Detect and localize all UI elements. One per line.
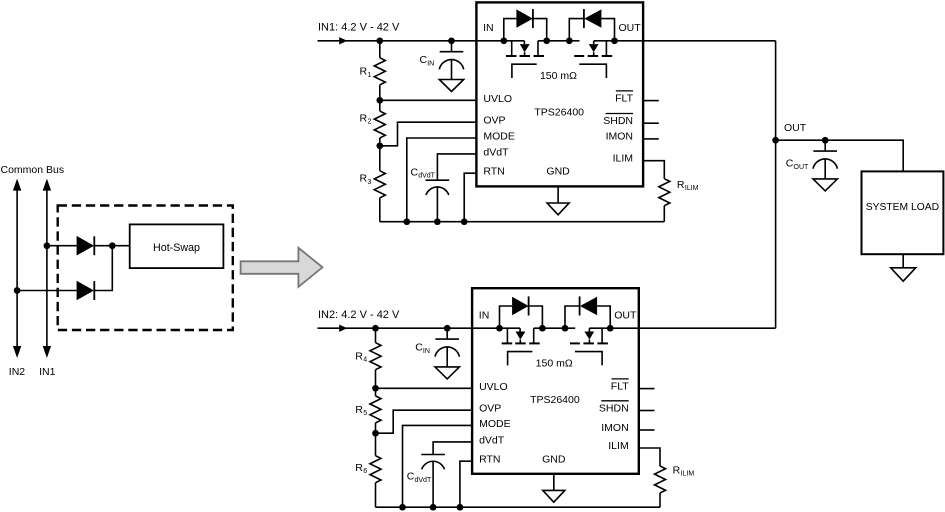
diode D1 xyxy=(77,236,95,256)
svg-text:150 mΩ: 150 mΩ xyxy=(536,357,573,369)
label ILIM pin xyxy=(613,153,633,165)
node on bus IN1 xyxy=(44,242,51,249)
svg-text:R: R xyxy=(673,465,681,477)
node R5/R6/OVP xyxy=(372,430,379,437)
node R1/R2/UVLO xyxy=(376,97,383,104)
label IN1: 4.2 V - 42 V xyxy=(318,22,400,34)
label TPS26400 (U2) xyxy=(530,394,580,406)
wire ILIM xyxy=(643,161,664,179)
body diode D1b xyxy=(569,9,614,41)
label C_IN (IN1 side) xyxy=(420,54,435,67)
svg-text:1: 1 xyxy=(368,72,372,79)
wire OUT from U2 xyxy=(639,327,776,329)
IC U2 TPS26400 body xyxy=(472,288,639,474)
svg-text:ILIM: ILIM xyxy=(685,185,699,192)
svg-text:6: 6 xyxy=(363,468,367,475)
svg-text:GND: GND xyxy=(542,453,566,465)
svg-text:ILIM: ILIM xyxy=(613,153,633,165)
mosfet Q1a xyxy=(506,41,544,78)
label OUT pin xyxy=(614,309,637,321)
label RTN pin xyxy=(479,454,500,466)
svg-text:MODE: MODE xyxy=(479,418,511,430)
label SHDN pin (active low) xyxy=(603,114,633,128)
label IMON pin xyxy=(606,131,633,143)
svg-text:MODE: MODE xyxy=(483,131,515,143)
svg-text:IN1: 4.2 V - 42 V: IN1: 4.2 V - 42 V xyxy=(318,22,400,34)
label TPS26400 (U1) xyxy=(534,107,584,119)
label UVLO pin xyxy=(483,93,512,105)
svg-text:R: R xyxy=(360,113,368,125)
svg-text:UVLO: UVLO xyxy=(483,93,512,105)
label dVdT pin xyxy=(479,434,505,446)
label MODE pin xyxy=(479,418,511,430)
input arrowhead IN2 xyxy=(339,325,347,332)
wire bus IN2 to diode D2 xyxy=(17,290,77,292)
node Q1a drain xyxy=(500,37,507,44)
diode D2 xyxy=(77,281,95,301)
resistor R5 xyxy=(370,388,381,433)
svg-text:4: 4 xyxy=(363,357,367,364)
node Q1b source xyxy=(566,37,573,44)
node MODE/rail xyxy=(403,218,410,225)
node RTN/rail xyxy=(457,504,464,511)
node C_dVdT/rail xyxy=(434,218,441,225)
wire ground rail xyxy=(380,221,665,223)
svg-text:OUT: OUT xyxy=(614,309,637,321)
svg-text:Common Bus: Common Bus xyxy=(1,164,65,176)
wire OVP xyxy=(376,410,473,433)
svg-text:IN1: IN1 xyxy=(39,366,56,378)
label R5 xyxy=(355,404,367,417)
svg-text:RTN: RTN xyxy=(479,454,500,466)
label IN pin xyxy=(483,22,494,34)
pin stub SHDN xyxy=(643,122,659,124)
pin stub IMON xyxy=(639,429,655,431)
body diode D2b xyxy=(565,296,610,328)
svg-text:dVdT: dVdT xyxy=(415,477,432,484)
label OUT node xyxy=(784,122,807,134)
wire OUT from U1 xyxy=(643,40,776,42)
wire input IN2 xyxy=(318,327,521,329)
svg-text:5: 5 xyxy=(363,410,367,417)
svg-text:OVP: OVP xyxy=(483,115,505,127)
label OVP pin xyxy=(483,115,505,127)
resistor R2 xyxy=(374,100,385,146)
wire internal out segment xyxy=(589,327,638,329)
wire OUT to load xyxy=(776,140,904,171)
capacitor C_dVdT xyxy=(421,455,445,508)
resistor R6 xyxy=(370,433,381,507)
node Q2b drain xyxy=(607,325,614,332)
svg-text:R: R xyxy=(355,404,363,416)
resistor R1 xyxy=(374,41,385,101)
label FLT pin (active low) xyxy=(611,379,629,393)
label 150 mOhm xyxy=(536,357,573,369)
wire internal mid segment xyxy=(534,327,576,329)
svg-text:dVdT: dVdT xyxy=(479,434,505,446)
label OUT pin xyxy=(619,22,642,34)
wire RTN xyxy=(464,173,476,222)
label R_ILIM (U2) xyxy=(673,465,695,478)
svg-text:IMON: IMON xyxy=(606,131,633,143)
label C_dVdT xyxy=(411,167,436,180)
node RTN/rail xyxy=(461,218,468,225)
pin stub IMON xyxy=(643,138,659,140)
node MODE/rail xyxy=(399,504,406,511)
label MODE pin xyxy=(483,131,515,143)
wire OUT vertical bus xyxy=(775,41,777,328)
dashed enclosure box xyxy=(58,206,233,331)
svg-text:RTN: RTN xyxy=(483,166,504,178)
svg-text:3: 3 xyxy=(368,179,372,186)
wire internal FET drain segment xyxy=(537,41,539,56)
pin stub FLT xyxy=(639,388,655,390)
label IN1 (bus) xyxy=(39,366,56,378)
label IMON pin xyxy=(601,422,628,434)
label R6 xyxy=(355,462,367,475)
svg-text:OUT: OUT xyxy=(619,22,642,34)
label UVLO pin xyxy=(479,381,508,393)
svg-text:IN: IN xyxy=(479,309,490,321)
wire MODE xyxy=(403,425,473,507)
svg-text:SHDN: SHDN xyxy=(599,402,629,414)
svg-text:dVdT: dVdT xyxy=(418,173,435,180)
svg-text:Hot-Swap: Hot-Swap xyxy=(153,242,200,254)
svg-text:GND: GND xyxy=(546,165,570,177)
node input / R4 xyxy=(372,325,379,332)
wire: common bus line IN2 (left vertical bus with arrows) xyxy=(13,179,21,358)
node C_dVdT/rail xyxy=(430,504,437,511)
svg-text:IN: IN xyxy=(483,22,494,34)
label ILIM pin xyxy=(608,440,628,452)
svg-text:FLT: FLT xyxy=(615,92,633,104)
label C_OUT xyxy=(786,158,809,171)
label Common Bus xyxy=(1,164,65,176)
label R1 xyxy=(360,66,372,79)
svg-text:IN2: 4.2 V - 42 V: IN2: 4.2 V - 42 V xyxy=(318,309,400,321)
label R3 xyxy=(360,173,372,186)
pin stub FLT xyxy=(643,100,659,102)
node C_OUT xyxy=(822,137,829,144)
wire UVLO xyxy=(376,387,473,389)
node on bus IN2 xyxy=(14,287,21,294)
mosfet Q2a xyxy=(502,328,540,365)
input arrowhead IN1 xyxy=(339,37,347,44)
block arrow (implementation arrow) xyxy=(241,248,323,287)
wire D2 cathode up to junction xyxy=(94,246,112,291)
SYSTEM LOAD block xyxy=(862,171,944,254)
svg-text:OUT: OUT xyxy=(794,164,810,171)
wire dVdT xyxy=(437,154,476,180)
wire OVP xyxy=(380,122,477,146)
label IN pin xyxy=(479,309,490,321)
resistor R3 xyxy=(374,146,385,222)
wire input IN1 xyxy=(318,40,525,42)
svg-text:SHDN: SHDN xyxy=(603,115,633,127)
svg-text:R: R xyxy=(355,350,363,362)
node input / C_IN xyxy=(444,325,451,332)
node D1/D2 junction xyxy=(109,242,116,249)
body diode D1a xyxy=(504,9,547,41)
svg-text:R: R xyxy=(360,66,368,78)
wire internal out segment xyxy=(594,40,643,42)
ground at SYSTEM LOAD xyxy=(891,254,916,281)
svg-text:IN2: IN2 xyxy=(9,366,26,378)
svg-text:FLT: FLT xyxy=(611,380,629,392)
wire RTN xyxy=(460,461,472,507)
svg-text:150 mΩ: 150 mΩ xyxy=(540,70,577,82)
svg-text:dVdT: dVdT xyxy=(483,146,509,158)
wire internal mid segment xyxy=(538,40,580,42)
resistor R_ILIM (U1) xyxy=(659,179,670,222)
svg-text:IN: IN xyxy=(427,60,434,67)
label C_IN (IN2 side) xyxy=(415,342,430,355)
label R4 xyxy=(355,350,367,363)
node R2/R3/OVP xyxy=(376,142,383,149)
ground at GND pin (U1) xyxy=(547,186,569,214)
svg-text:ILIM: ILIM xyxy=(608,440,628,452)
wire ILIM xyxy=(639,448,660,466)
svg-text:OVP: OVP xyxy=(479,403,501,415)
label FLT pin (active low) xyxy=(615,91,633,105)
svg-text:UVLO: UVLO xyxy=(479,381,508,393)
label R_ILIM (U1) xyxy=(677,179,699,192)
node Q2b source xyxy=(562,325,569,332)
node OUT xyxy=(772,137,779,144)
capacitor C_IN (IN1 side) xyxy=(439,41,463,92)
Hot-Swap block xyxy=(130,224,224,268)
node input / R1 xyxy=(376,37,383,44)
label IN2: 4.2 V - 42 V xyxy=(318,309,400,321)
label GND pin xyxy=(542,453,566,465)
svg-text:R: R xyxy=(360,173,368,185)
svg-text:IMON: IMON xyxy=(601,422,628,434)
node Q2a source xyxy=(539,325,546,332)
svg-text:2: 2 xyxy=(368,119,372,126)
capacitor C_IN (IN2 side) xyxy=(435,328,459,379)
wire: common bus line IN1 (right vertical bus with arrows) xyxy=(43,179,51,358)
svg-text:SYSTEM LOAD: SYSTEM LOAD xyxy=(866,202,939,213)
label 150 mOhm xyxy=(540,70,577,82)
ground at GND pin (U2) xyxy=(543,474,565,502)
node input / C_IN xyxy=(448,37,455,44)
label RTN pin xyxy=(483,166,504,178)
IC U1 TPS26400 body xyxy=(476,2,643,186)
capacitor C_OUT xyxy=(813,140,837,191)
label GND pin xyxy=(546,165,570,177)
label SHDN pin (active low) xyxy=(599,401,629,415)
resistor R_ILIM (U2) xyxy=(655,466,666,507)
wire ground rail xyxy=(376,506,661,508)
label dVdT pin xyxy=(483,146,509,158)
svg-text:TPS26400: TPS26400 xyxy=(530,394,580,406)
pin stub SHDN xyxy=(639,410,655,412)
label IN2 (bus) xyxy=(9,366,26,378)
capacitor C_dVdT xyxy=(426,180,450,222)
svg-text:IN: IN xyxy=(423,348,430,355)
wire MODE xyxy=(407,138,477,222)
body diode D2a xyxy=(500,296,543,328)
label R2 xyxy=(360,113,372,126)
node R4/R5/UVLO xyxy=(372,385,379,392)
resistor R4 xyxy=(370,328,381,388)
label C_dVdT xyxy=(407,471,432,484)
mosfet Q1b xyxy=(574,41,612,78)
node Q1a source xyxy=(543,37,550,44)
label OVP pin xyxy=(479,403,501,415)
wire dVdT xyxy=(433,442,472,455)
svg-text:TPS26400: TPS26400 xyxy=(534,107,584,119)
node Q2a drain xyxy=(496,325,503,332)
svg-text:OUT: OUT xyxy=(784,122,807,134)
svg-text:ILIM: ILIM xyxy=(681,471,695,478)
mosfet Q2b xyxy=(570,328,608,365)
wire D1 cathode to Hot-Swap xyxy=(94,245,129,247)
svg-text:R: R xyxy=(677,179,685,191)
node Q1b drain xyxy=(611,37,618,44)
wire UVLO xyxy=(380,99,477,101)
wire bus IN1 to diode D1 xyxy=(47,245,77,247)
svg-text:R: R xyxy=(355,462,363,474)
wire internal FET drain segment xyxy=(533,328,535,343)
